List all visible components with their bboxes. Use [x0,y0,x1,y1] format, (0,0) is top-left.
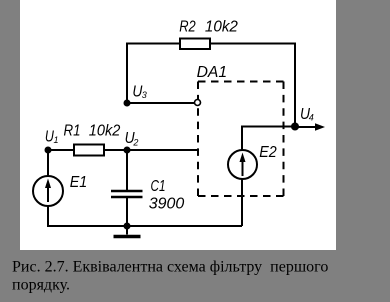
wire: U3 node right to op-amp input circle [127,102,194,104]
svg-text:10k2: 10k2 [89,123,121,140]
svg-text:C1: C1 [151,178,166,195]
node U3 junction dot [124,100,131,107]
op-amp DA1 dashed box right edge [283,82,285,197]
svg-text:2: 2 [132,137,138,147]
svg-text:4: 4 [309,113,314,123]
wire: E2 top up and right to node U4 [242,127,295,151]
svg-text:R1: R1 [64,123,81,140]
wire: R1 right terminal through U2 node to DA1 box edge [104,149,198,151]
wire: U1 node down to E1 top [47,150,49,176]
svg-text:3900: 3900 [149,196,185,213]
op-amp DA1 dashed box left edge [197,82,199,197]
capacitor C1 bottom plate [111,196,143,199]
node U1 junction dot [45,147,52,154]
node U4 junction dot [291,123,299,131]
node U2 junction dot [124,147,131,154]
op-amp DA1 dashed box top edge [198,81,284,83]
resistor R2 [180,39,210,50]
wire: U3 node up to top rail and to R2 left terminal [127,44,180,105]
ground [126,226,128,235]
output arrow head [315,123,325,130]
wire: E2 bottom stem [241,179,243,226]
wire: E1 bottom down and bottom rail right to E2 stem [48,206,242,226]
white schematic panel [20,0,336,250]
wire: U2 node down to C1 top plate [126,150,128,191]
op-amp DA1 dashed box bottom edge [198,195,284,197]
op-amp input open circle [195,100,201,106]
source E2 arrow [242,159,244,176]
svg-text:DA1: DA1 [197,64,228,81]
source E1 circle [33,176,63,206]
wire: U4 output line [295,126,317,128]
svg-text:E1: E1 [70,174,88,191]
svg-text:10k2: 10k2 [205,19,238,36]
svg-text:порядку.: порядку. [12,277,70,294]
source E2 circle [228,150,257,179]
source E1 arrow [47,185,49,202]
svg-text:R2: R2 [179,19,196,36]
ground junction dot [124,223,131,230]
wire: C1 bottom plate down to bottom rail [126,198,128,226]
svg-text:1: 1 [54,135,59,145]
svg-text:E2: E2 [259,144,277,161]
svg-text:Рис. 2.7. Еквівалентна схема ф: Рис. 2.7. Еквівалентна схема фільтру пер… [12,259,328,276]
wire: U1 node to R1 left terminal [48,149,74,151]
capacitor C1 top plate [111,190,143,193]
wire: R2 right terminal to right rail down to node U4 [210,44,295,128]
svg-text:3: 3 [142,90,147,100]
resistor R1 [74,145,104,156]
